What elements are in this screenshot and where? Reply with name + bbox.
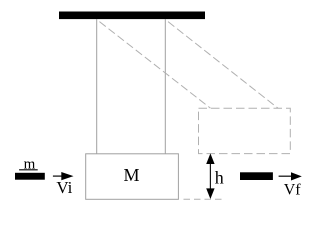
- h arrow top head: [206, 153, 214, 164]
- bullet m (before impact): [15, 173, 45, 180]
- svg-text:Vf: Vf: [284, 182, 302, 199]
- right string: [164, 19, 166, 154]
- svg-text:M: M: [123, 165, 139, 185]
- block M box: [86, 154, 179, 200]
- h arrow line: [209, 162, 211, 190]
- Vf arrow head: [291, 172, 302, 180]
- Vi arrow line: [53, 175, 64, 177]
- swung left string (dashed diagonal): [97, 20, 211, 109]
- baseline (dashed): [180, 198, 225, 200]
- underline of m: [19, 169, 38, 171]
- h arrow bottom head: [206, 188, 214, 199]
- swung block (dashed box): [199, 108, 291, 153]
- svg-text:h: h: [215, 168, 224, 188]
- swung right string (dashed diagonal): [165, 20, 278, 109]
- bullet after (Vf): [240, 172, 273, 180]
- Vf arrow line: [279, 175, 292, 177]
- left string: [96, 19, 98, 154]
- svg-text:Vi: Vi: [56, 178, 72, 197]
- ceiling bar: [59, 12, 205, 20]
- Vi arrow head: [61, 172, 73, 180]
